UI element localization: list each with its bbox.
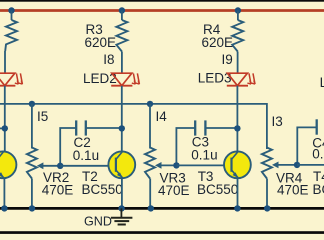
wire R3 to LED2	[121, 52, 123, 74]
svg-text:620E: 620E	[85, 35, 117, 50]
bottom border frame line	[0, 231, 324, 234]
svg-text:I8: I8	[103, 52, 114, 67]
svg-text:0.1u: 0.1u	[73, 148, 99, 163]
label VR4	[276, 171, 303, 186]
node T1 emitter-ground junction	[1, 205, 7, 211]
label 0.1u (C2)	[73, 148, 99, 163]
label R3	[86, 22, 103, 37]
svg-text:I9: I9	[222, 52, 233, 67]
LED LED3	[227, 73, 255, 86]
transistor T1	[0, 151, 16, 178]
VR2 wiper arrow	[37, 162, 60, 169]
label R4	[203, 22, 221, 37]
label 620E (R4)	[202, 35, 234, 50]
svg-text:BC550: BC550	[313, 182, 324, 197]
svg-text:620E: 620E	[202, 35, 234, 50]
svg-text:I4: I4	[156, 109, 168, 124]
capacitor C4	[297, 119, 324, 165]
wire rail to R3	[121, 11, 123, 21]
node rail-R4 junction	[235, 7, 241, 13]
capacitor C2	[60, 120, 86, 165]
positive supply rail (red)	[0, 9, 324, 12]
label BC550 (T2)	[82, 182, 123, 197]
node wiper-C2-base junction	[57, 163, 63, 169]
capacitor C3	[176, 120, 205, 165]
wire bus to VR3	[149, 104, 151, 149]
svg-text:470E: 470E	[277, 182, 309, 197]
potentiometer VR2	[27, 148, 37, 179]
svg-text:I5: I5	[37, 109, 48, 124]
wire LED3 to T3 collector	[236, 86, 238, 152]
node wiper-C4-base junction	[294, 162, 300, 168]
node T2 emitter-ground junction	[118, 205, 124, 211]
label 470E (VR2)	[42, 183, 74, 198]
wire base T2	[60, 165, 116, 167]
svg-text:470E: 470E	[158, 183, 190, 198]
resistor R4	[232, 20, 243, 52]
wire rail to R2	[11, 11, 13, 21]
node wiper-C3-base junction	[173, 162, 179, 168]
node rail-R3 junction	[119, 7, 125, 13]
svg-text:470E: 470E	[42, 183, 74, 198]
label LED2	[83, 71, 117, 86]
node VR3-ground junction	[148, 205, 154, 211]
LED LED2	[111, 73, 139, 86]
label 0.1u (C3)	[191, 148, 217, 163]
wire base T3	[176, 164, 231, 166]
resistor R3	[116, 20, 127, 52]
bus wire to VR tops	[0, 104, 267, 149]
label 470E (VR4)	[277, 182, 309, 197]
label C3	[192, 135, 209, 150]
top border frame line	[0, 0, 324, 2]
ground symbol	[111, 208, 132, 224]
svg-text:I3: I3	[272, 114, 283, 129]
wire R4 to LED3	[237, 52, 239, 74]
node C2-collector junction	[119, 125, 125, 131]
svg-text:GND: GND	[84, 215, 112, 229]
svg-text:BC550: BC550	[82, 182, 123, 197]
wire C3 to T3 collector node	[205, 127, 237, 129]
label VR2	[43, 170, 69, 185]
label BC550 (T4)	[313, 182, 324, 197]
label GND	[84, 215, 112, 229]
label BC550 (T3)	[197, 182, 238, 197]
wire VR3 to ground	[149, 179, 151, 209]
wire VR4 to ground	[266, 179, 268, 209]
wire base T4	[297, 164, 324, 166]
transistor T3	[224, 151, 251, 178]
ground rail (black)	[0, 207, 324, 210]
node VR2-ground junction	[29, 205, 35, 211]
node T3 emitter-ground junction	[234, 205, 240, 211]
potentiometer VR4	[262, 148, 272, 179]
label C4	[312, 135, 324, 150]
wire VR2 to ground	[31, 179, 33, 209]
wire T1 emitter to ground	[3, 178, 5, 209]
wire LED1 to T1 collector	[4, 86, 6, 152]
resistor R2	[5, 20, 17, 51]
label T4	[313, 169, 324, 184]
node C1-collector junction	[2, 125, 8, 131]
wire rail to R4	[237, 11, 239, 21]
label T3	[198, 169, 214, 184]
svg-text:BC550: BC550	[197, 182, 238, 197]
label I5	[37, 109, 48, 124]
label LED3	[198, 71, 232, 86]
LED LED1	[0, 73, 22, 86]
wire R2 to LED1	[4, 51, 6, 73]
wire C2 to T2 collector node	[86, 127, 122, 129]
svg-text:0.1u: 0.1u	[312, 147, 324, 162]
label 0.1u (C4)	[312, 147, 324, 162]
wire T3 emitter to ground	[237, 178, 239, 209]
svg-text:0.1u: 0.1u	[191, 148, 217, 163]
label I4	[156, 109, 168, 124]
wire LED2 to T2 collector	[121, 86, 123, 152]
label I9	[222, 52, 233, 67]
label T2	[82, 169, 98, 184]
wire bus to VR2	[31, 104, 33, 149]
node VR2 top junction	[29, 101, 35, 107]
node VR3 top junction	[147, 101, 153, 107]
label 620E (R3)	[85, 35, 117, 50]
svg-text:LED4: LED4	[320, 75, 324, 90]
label LED4	[320, 75, 324, 90]
label I3	[272, 114, 283, 129]
node VR4-ground junction	[264, 205, 270, 211]
wire capacitor C1 lead	[0, 127, 5, 129]
VR3 wiper arrow	[155, 162, 176, 169]
label I8	[103, 52, 114, 67]
label 470E (VR3)	[158, 183, 190, 198]
label C2	[74, 135, 91, 150]
VR4 wiper arrow	[272, 162, 297, 169]
transistor T2	[108, 151, 135, 178]
wire T2 emitter to ground	[121, 178, 123, 209]
label VR3	[160, 171, 186, 186]
node rail-R2 junction	[8, 7, 14, 13]
node C3-collector junction	[234, 125, 240, 131]
potentiometer VR3	[145, 148, 155, 179]
